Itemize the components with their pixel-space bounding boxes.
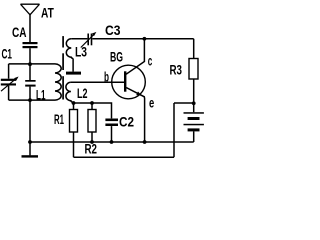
svg-text:AT: AT [41,6,54,21]
svg-text:R2: R2 [85,142,98,157]
svg-text:C2: C2 [119,115,134,130]
svg-text:R3: R3 [170,63,183,78]
svg-text:L2: L2 [77,86,88,101]
svg-text:c: c [148,54,153,69]
svg-text:BG: BG [110,50,123,65]
svg-text:R1: R1 [54,112,64,127]
svg-text:C1: C1 [2,47,13,62]
svg-text:e: e [149,96,155,111]
svg-text:L3: L3 [75,45,87,60]
svg-text:L1: L1 [36,88,46,103]
svg-text:CA: CA [12,25,27,40]
svg-text:C3: C3 [105,23,121,38]
svg-text:b: b [104,70,109,85]
